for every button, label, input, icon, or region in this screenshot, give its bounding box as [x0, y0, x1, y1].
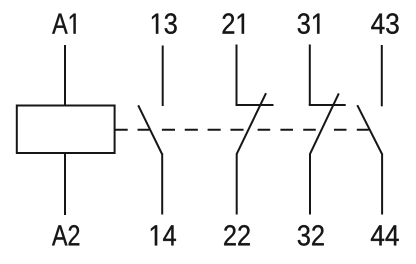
- terminal label 31: [298, 13, 320, 34]
- wire terminal 13: [162, 46, 164, 107]
- terminal label 22: [224, 225, 250, 245]
- wire terminal 21: [236, 45, 238, 106]
- mechanical linkage dashed segment coil-to-blade13: [115, 129, 150, 131]
- terminal label A2: [52, 225, 79, 245]
- terminal label 21: [223, 13, 244, 33]
- terminal label 32: [298, 225, 324, 246]
- terminal label 14: [151, 225, 176, 245]
- mechanical linkage dashed segment blade31-to-blade43: [334, 129, 369, 131]
- NC contact 31-32 fixed bar: [309, 104, 346, 106]
- NC contact 31-32 moving blade: [310, 93, 339, 154]
- mechanical linkage dashed segment blade13-to-blade21: [162, 129, 249, 131]
- wire terminal 43: [381, 45, 383, 106]
- NC contact 21-22 moving blade: [237, 93, 266, 154]
- terminal label 43: [371, 13, 398, 34]
- wire terminal 22: [236, 154, 238, 215]
- coil K1: [17, 106, 115, 154]
- terminal label 44: [371, 225, 399, 245]
- terminal label 13: [152, 13, 177, 34]
- NO contact 43-44 moving blade: [357, 105, 382, 154]
- wire terminal 14: [161, 153, 163, 214]
- NC contact 21-22 fixed bar: [236, 104, 274, 106]
- wire terminal A1: [64, 45, 66, 106]
- wire terminal 44: [381, 154, 383, 215]
- wire terminal A2: [64, 153, 66, 215]
- NO contact 13-14 moving blade: [138, 105, 162, 154]
- terminal label A1: [52, 14, 75, 34]
- mechanical linkage dashed segment blade21-to-blade31: [258, 129, 322, 131]
- wire terminal 31: [309, 45, 311, 106]
- wire terminal 32: [309, 154, 311, 215]
